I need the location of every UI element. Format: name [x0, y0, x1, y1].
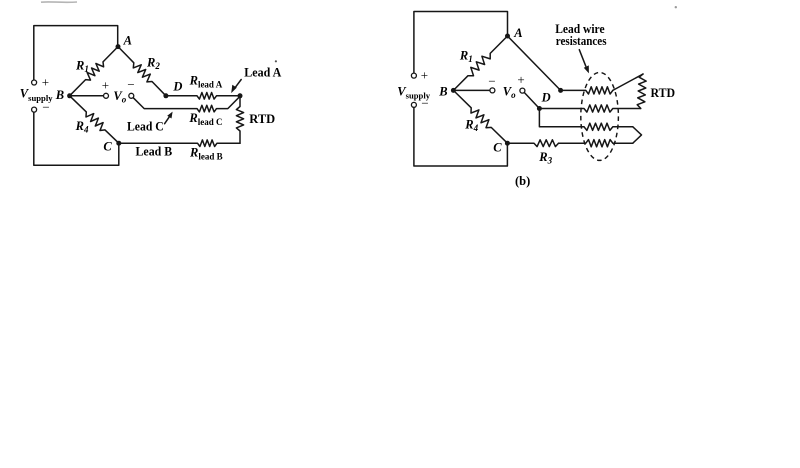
resistor R1 (right bridge arm B-A) [453, 36, 507, 90]
wire: node B to Vo + terminal (left) [70, 95, 104, 97]
lead wire resistance 1 (top row, in ellipse) [561, 87, 613, 94]
terminal circle Vo - (left) [129, 93, 134, 98]
node D dot (right) [537, 106, 542, 111]
wire: node D to junction through resistor R_lead A (left) [166, 93, 240, 100]
junction dot before lead 1 (right) [558, 88, 563, 93]
svg-text:Lead B: Lead B [136, 145, 173, 159]
resistor RTD (left, vertical) [236, 96, 243, 143]
battery terminal + circle (right V_supply) [411, 73, 416, 78]
svg-text:Lead A: Lead A [244, 66, 281, 80]
svg-text:R1: R1 [75, 58, 89, 74]
svg-text:−: − [421, 96, 428, 111]
chevron loop joining lead 3 and lead 4 (right) [633, 127, 642, 143]
node C dot (right) [505, 141, 510, 146]
svg-text:R2: R2 [146, 55, 160, 71]
svg-text:resistances: resistances [556, 34, 607, 48]
arrow from Lead A label to wire [235, 80, 242, 89]
svg-text:Rlead C: Rlead C [188, 111, 222, 127]
resistor RTD (right) [637, 74, 646, 108]
battery terminal - circle (left V_supply) [32, 107, 37, 112]
svg-text:D: D [541, 90, 551, 104]
svg-text:+: + [42, 75, 49, 90]
terminal circle Vo - (right) [490, 88, 495, 93]
lead wire resistance 4 (bottom row, in ellipse) [559, 140, 633, 147]
terminal circle Vo + (left) [104, 93, 109, 98]
svg-text:R4: R4 [75, 119, 89, 135]
wire: left circuit top rail from supply+ up and across to node A [34, 26, 118, 80]
svg-text:R3: R3 [538, 150, 552, 166]
resistor R3 with wire from node C (right) [507, 140, 558, 147]
wire lead B with resistor R_lead B (left) [119, 140, 240, 147]
wire lead C with resistor R_lead C (left) [133, 96, 240, 112]
svg-text:+: + [517, 72, 524, 87]
terminal circle Vo + (right) [520, 88, 525, 93]
svg-text:C: C [493, 141, 502, 155]
wire: node B to Vo - terminal (right) [453, 89, 489, 91]
node D dot (left) [163, 93, 168, 98]
junction dot lead A / RTD top (left) [238, 93, 243, 98]
lead wire resistance 3 (in ellipse) [584, 123, 633, 130]
wire: Vo + terminal to node D (right) [524, 93, 539, 109]
resistor R4 (left bridge arm B-C) [70, 96, 119, 143]
svg-text:B: B [55, 88, 64, 102]
svg-text:Vo: Vo [113, 89, 126, 105]
svg-text:A: A [513, 26, 522, 40]
svg-text:D: D [172, 80, 182, 94]
battery terminal - circle (right V_supply) [411, 102, 416, 107]
svg-text:(b): (b) [515, 174, 530, 188]
dashed ellipse around lead wire resistances [581, 72, 619, 160]
wire: right circuit bottom rail from supply- down, across, up to node C [414, 107, 508, 166]
svg-text:−: − [42, 99, 49, 114]
svg-text:R4: R4 [464, 117, 478, 133]
resistor R1 (left bridge arm B-A) [70, 47, 118, 96]
node A dot (left) [116, 44, 121, 49]
battery terminal + circle (left V_supply) [32, 80, 37, 85]
resistor R4 (right bridge arm B-C) [453, 90, 507, 143]
svg-text:RTD: RTD [249, 112, 275, 126]
svg-text:R1: R1 [459, 48, 473, 64]
wire: right circuit top rail from supply+ up and across to node A [414, 12, 508, 73]
svg-text:−: − [127, 77, 134, 92]
wire: node A diagonal to lead junction (right) [508, 36, 561, 90]
node A dot (right) [505, 34, 510, 39]
lead wire resistance 2 with wire from node D to RTD bottom (right) [539, 105, 640, 112]
wire: lead 1 up to RTD top (right) [613, 74, 643, 90]
arrow from Lead C label to wire [165, 116, 170, 123]
svg-text:−: − [488, 73, 495, 88]
svg-text:Rlead B: Rlead B [189, 146, 223, 162]
node B dot (right) [451, 88, 456, 93]
wire: node D down leg to lead 3 (right) [539, 109, 584, 127]
svg-text:A: A [123, 34, 132, 48]
svg-text:Lead C: Lead C [127, 119, 164, 133]
node C dot (left) [116, 141, 121, 146]
arrow from Lead wire resistances label to ellipse [579, 50, 586, 66]
svg-text:+: + [421, 67, 428, 82]
scan artifact: speck above Lead A [275, 60, 277, 62]
svg-text:+: + [102, 78, 109, 93]
scan artifact: faint squiggle top-left [41, 1, 77, 3]
svg-text:Rlead A: Rlead A [189, 74, 223, 90]
resistor R2 (left bridge arm A-D) [118, 47, 166, 96]
scan artifact: speck top right [675, 6, 677, 8]
svg-text:B: B [438, 84, 447, 98]
svg-text:Vo: Vo [503, 84, 516, 100]
node B dot (left) [67, 93, 72, 98]
svg-text:C: C [103, 139, 112, 153]
wire: left circuit bottom rail from supply- down, across, up to node C [34, 112, 119, 165]
svg-text:RTD: RTD [651, 86, 676, 100]
